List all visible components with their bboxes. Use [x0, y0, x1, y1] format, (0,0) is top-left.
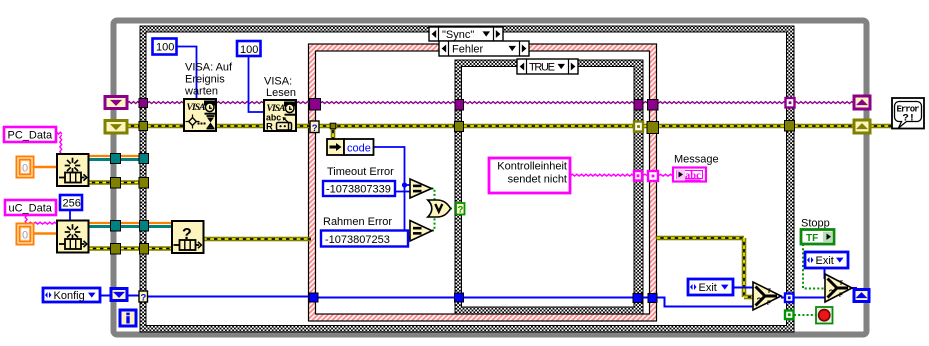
enum constant Exit 1 [688, 279, 733, 295]
loop condition terminal [816, 307, 833, 324]
svg-text:?: ? [458, 205, 464, 216]
svg-text:Fehler: Fehler [452, 44, 484, 56]
wire to loop condition [794, 314, 816, 316]
shift register blue right [854, 290, 869, 302]
svg-text:Kontrolleinheit: Kontrolleinheit [497, 161, 567, 173]
wire 100 #2 to VISA read [249, 56, 265, 112]
wire PC_Data name [55, 132, 62, 134]
obtain queue uC [57, 221, 89, 253]
wire enum state (blue) [100, 295, 112, 297]
enum constant Konfig [43, 288, 100, 302]
svg-text:F: F [767, 300, 771, 307]
wire equal1 to or [431, 189, 435, 205]
svg-text:T: T [767, 288, 771, 295]
svg-text:?: ? [312, 123, 318, 134]
wire error cluster main [127, 124, 140, 129]
constant 0 (PC) [17, 157, 34, 178]
tunnels sync left border [139, 99, 148, 108]
enum constant Exit 2 [805, 252, 848, 268]
svg-text:0: 0 [22, 230, 28, 242]
svg-text:VISA:: VISA: [264, 76, 292, 88]
wire 100 #1 to VISA wait [177, 47, 197, 100]
svg-text:?!: ?! [903, 113, 916, 125]
svg-text:Exit: Exit [699, 282, 717, 294]
constant 0 (uC) [17, 224, 34, 245]
svg-text:Message: Message [674, 154, 719, 166]
svg-text:Konfig: Konfig [54, 290, 85, 302]
svg-text:-1073807339: -1073807339 [326, 184, 391, 196]
error handler icon Error?! [892, 98, 924, 129]
wire uC queue refnum [89, 222, 111, 224]
constant 256 [60, 195, 82, 210]
svg-text:0: 0 [22, 163, 28, 175]
label "Sync" [429, 27, 503, 41]
svg-text:Ereignis: Ereignis [185, 74, 225, 86]
label TRUE [517, 59, 578, 74]
wire error branch to code [331, 126, 336, 139]
tunnels sync right border [786, 98, 795, 108]
svg-text:TRUE: TRUE [529, 62, 555, 74]
svg-text:warten: warten [184, 86, 218, 98]
wire equal2 to or [431, 213, 435, 231]
select node 1 [753, 282, 781, 310]
svg-text:TF: TF [806, 233, 818, 244]
indicator Message (string) [673, 168, 706, 182]
svg-text:Exit: Exit [816, 255, 834, 267]
wire VISA resource (purple) [127, 102, 140, 104]
svg-text:F: F [839, 292, 843, 299]
constant -1073807339 [323, 181, 395, 196]
svg-text:Lesen: Lesen [266, 87, 296, 99]
wire 256 to obtain queue [69, 210, 71, 221]
tunnels Fehler border [310, 99, 321, 111]
VISA read node [264, 100, 296, 131]
svg-text:R: R [266, 122, 273, 133]
shift register olive right [854, 120, 870, 133]
shift register purple left [105, 97, 127, 109]
equal node 1 [410, 179, 432, 198]
constant -1073807253 [321, 231, 408, 247]
constant 100 #2 [237, 41, 261, 56]
svg-text:-1073807253: -1073807253 [325, 234, 390, 246]
label uC_Data [5, 200, 56, 215]
shift register purple right [854, 96, 870, 109]
svg-text:sendet nicht: sendet nicht [508, 174, 567, 186]
svg-text:?: ? [829, 288, 834, 298]
svg-text:code: code [347, 143, 371, 155]
wire message string [570, 174, 634, 176]
svg-text:abc: abc [685, 171, 701, 182]
equal node 2 [410, 221, 432, 242]
shift register olive left [105, 121, 127, 134]
wire rahmen const to equal [408, 238, 410, 240]
case structure TRUE [455, 60, 643, 314]
wire Stopp to select2 [803, 244, 825, 289]
svg-text:256: 256 [63, 198, 81, 210]
svg-text:T: T [839, 280, 843, 287]
svg-text:PC_Data: PC_Data [8, 130, 54, 142]
wire PC queue refnum [88, 155, 111, 157]
tunnels TRUE border [455, 100, 464, 111]
terminal Stopp TF [801, 230, 834, 245]
wire select2 out to SR [852, 287, 857, 289]
string constant Kontrolleinheit sendet nicht [489, 158, 570, 193]
svg-text:VISA: Auf: VISA: Auf [185, 62, 233, 74]
svg-text:"Sync": "Sync" [442, 29, 474, 41]
obtain queue PC [57, 154, 89, 186]
wire uC queue error [89, 246, 111, 251]
svg-text:?: ? [141, 293, 147, 304]
wire timeout const to equal [395, 191, 410, 193]
svg-text:100: 100 [240, 44, 258, 56]
or node [428, 200, 451, 217]
case selector terminal TRUE [456, 203, 465, 215]
wire or to case selector [450, 208, 456, 210]
svg-text:VISA: VISA [187, 103, 206, 113]
wire PC queue error [88, 180, 111, 185]
loop border tunnels [111, 154, 121, 164]
dequeue element node [172, 221, 204, 253]
case selector terminal Sync [139, 291, 148, 302]
wire Exit 2 to select2 [824, 268, 826, 279]
wire Exit 1 to select [733, 287, 753, 289]
wire dequeue error out [203, 237, 311, 242]
svg-text:Stopp: Stopp [801, 218, 830, 230]
case structure "Sync" [140, 26, 794, 332]
svg-text:uC_Data: uC_Data [9, 203, 53, 215]
while loop [114, 21, 867, 335]
svg-text:Rahmen Error: Rahmen Error [323, 216, 392, 228]
wire uC_Data name [25, 215, 27, 224]
shift register blue left [111, 289, 127, 301]
label PC_Data [4, 127, 56, 142]
svg-text:100: 100 [156, 42, 174, 54]
wire code to comparisons [373, 147, 410, 237]
svg-text:Timeout Error: Timeout Error [327, 166, 394, 178]
case structure Fehler [309, 44, 657, 321]
VISA wait on event node [184, 99, 216, 131]
svg-text:?: ? [757, 296, 762, 306]
select node 2 [825, 274, 852, 302]
iteration terminal i [120, 310, 136, 326]
unbundle code [327, 139, 344, 155]
case selector terminal Fehler [310, 121, 319, 133]
wire select1 out [781, 297, 825, 299]
label Fehler [439, 41, 529, 56]
constant 100 #1 [153, 39, 177, 55]
